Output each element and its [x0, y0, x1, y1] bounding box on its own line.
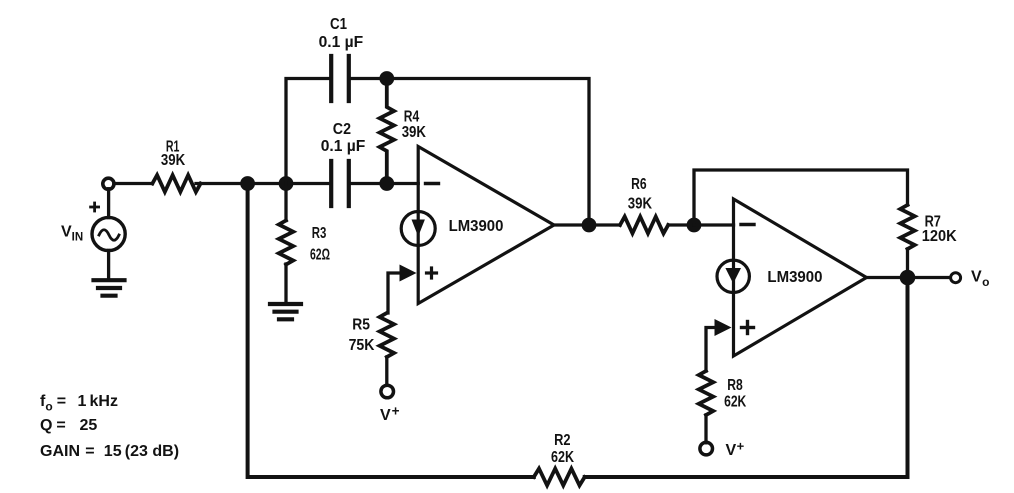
wire U2 plus input from R8 with corner [706, 328, 715, 372]
svg-text:R8: R8 [727, 377, 743, 394]
resistor R8 [699, 371, 713, 415]
source VIN circle [92, 217, 125, 250]
svg-text:120K: 120K [922, 228, 957, 245]
resistor R3 [279, 221, 293, 265]
resistor R5 [380, 313, 394, 357]
capacitor C2 [331, 161, 349, 206]
node G (U2 output junction) [900, 270, 916, 286]
resistor R6 [620, 217, 668, 234]
svg-text:62K: 62K [724, 394, 747, 411]
node C (C1 / R4 top junction) [379, 71, 394, 86]
wire node B up and over to C1 [286, 79, 330, 184]
wire node G to Vo terminal [908, 276, 950, 279]
svg-text:62Ω: 62Ω [310, 246, 330, 263]
op-amp U1 triangle [418, 147, 554, 304]
resistor R4 [380, 80, 394, 184]
op-amp U2 triangle [734, 199, 867, 356]
wire VIN to ground [107, 250, 110, 278]
node A (junction R1 / feedback R2 branch) [240, 176, 255, 191]
arrowhead into U2 plus input [715, 319, 732, 336]
current source symbol inside U2 [717, 260, 749, 292]
input terminal [103, 178, 114, 189]
svg-text:R6: R6 [631, 176, 647, 193]
wire R2 along bottom and up to node G [585, 278, 908, 478]
wire C2 right plate to U1 minus input [350, 182, 418, 185]
sine wave inside VIN [99, 230, 119, 241]
svg-text:C2: C2 [333, 121, 351, 138]
wire R3 to ground [284, 264, 287, 303]
wire node E to R6 [589, 223, 620, 226]
capacitor C1 [331, 56, 349, 101]
svg-text:39K: 39K [161, 152, 186, 169]
svg-text:GAIN=15(23dB): GAIN=15(23dB) [40, 443, 179, 460]
wire R8 to V+ terminal [704, 415, 707, 443]
svg-text:0.1 µF: 0.1 µF [319, 34, 364, 51]
svg-text:0.1 µF: 0.1 µF [321, 138, 366, 155]
wire R1 to op-amp U1 minus input (through nodes, up to C2 left plate) [196, 182, 330, 185]
wire node C to top-right corner and down to U1 output node [387, 79, 589, 226]
svg-text:LM3900: LM3900 [449, 218, 504, 235]
resistor R2 [534, 469, 585, 486]
arrowhead into U1 plus input [400, 265, 417, 282]
node E (U1 output junction) [582, 218, 597, 233]
wire U1 output to node E [554, 223, 589, 226]
svg-text:62K: 62K [551, 449, 574, 466]
current source symbol inside U1 [401, 212, 435, 246]
plus sign U2 [742, 322, 754, 334]
ground (below R3) [270, 304, 301, 319]
minus sign U2 [741, 223, 754, 226]
svg-text:75K: 75K [349, 337, 375, 354]
svg-text:LM3900: LM3900 [767, 269, 822, 286]
terminal V+ (below R5) [381, 385, 394, 398]
wire node F to U2 minus input [694, 223, 734, 226]
minus sign U1 [426, 182, 439, 185]
svg-text:R2: R2 [554, 432, 570, 449]
wire input terminal to R1 [114, 182, 153, 185]
wire R6 to node F [668, 223, 694, 226]
wire R5 to V+ terminal [385, 357, 388, 385]
node B (junction main row / C1 branch / R3) [279, 176, 294, 191]
svg-text:C1: C1 [330, 16, 347, 33]
plus sign at VIN [91, 203, 99, 211]
terminal Vo [951, 273, 961, 283]
wire R7 to node G [906, 249, 909, 278]
resistor R1 [152, 175, 200, 192]
wire node F up over U2 to R7 top [694, 170, 908, 225]
svg-text:R3: R3 [312, 225, 327, 242]
svg-text:39K: 39K [402, 124, 427, 141]
resistor R7 [900, 205, 914, 249]
terminal V+ (below R8) [700, 442, 713, 455]
node F (U2 minus input junction) [687, 218, 702, 233]
svg-text:39K: 39K [628, 195, 653, 212]
ground (below VIN) [94, 280, 125, 296]
plus sign U1 [427, 268, 437, 278]
wire U2 output to node G [867, 276, 908, 279]
svg-text:R5: R5 [352, 317, 370, 334]
wire U1 plus input from R5 with corner [388, 273, 400, 313]
wire node B down to R3 [284, 184, 287, 221]
wire terminal to VIN source [107, 189, 110, 218]
wire node A down along bottom to R2 [248, 184, 534, 478]
node D (C2 / R4 / U1 minus junction) [379, 176, 394, 191]
wire C1 right plate to node C [350, 77, 387, 80]
